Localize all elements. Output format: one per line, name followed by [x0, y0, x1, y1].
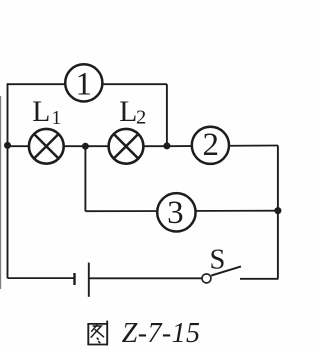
scan artifact left edge: [0, 96, 2, 289]
wire: bottom left to battery: [8, 277, 74, 279]
switch S lever: [211, 266, 241, 275]
wire: top branch horizontal: [8, 83, 168, 85]
svg-text:1: 1: [76, 67, 93, 103]
label L2: [119, 96, 146, 129]
caption text Z-7-15: [122, 318, 201, 349]
wire: branch 3 horizontal: [85, 210, 278, 213]
node D junction dot (right wire): [274, 207, 281, 214]
wire: battery to switch: [89, 277, 203, 279]
node B junction dot: [163, 142, 170, 149]
svg-text:S: S: [210, 244, 226, 275]
svg-text:L: L: [32, 96, 50, 128]
wire: left vertical: [7, 83, 9, 278]
meter 2: [192, 127, 229, 164]
svg-text:Z-7-15: Z-7-15: [122, 318, 201, 349]
wire: top branch vertical down to node B: [166, 84, 168, 146]
battery: negative plate (short): [73, 273, 75, 285]
svg-text:1: 1: [52, 108, 62, 129]
label L1: [32, 96, 61, 129]
meter 3: [157, 193, 195, 231]
wire: right vertical: [277, 146, 279, 279]
lamp L1: [29, 129, 64, 164]
svg-text:2: 2: [136, 107, 146, 129]
wire: switch to bottom right corner: [240, 278, 279, 280]
switch S pivot contact: [202, 274, 211, 283]
caption hanzi "tu" (figure) drawn as strokes: [88, 321, 108, 346]
svg-text:3: 3: [167, 195, 184, 231]
battery: positive plate (long): [88, 263, 90, 297]
node C junction dot (left wire): [4, 142, 11, 149]
wire: branch 3 vertical from node A: [84, 146, 86, 211]
lamp L2: [109, 129, 144, 164]
svg-text:2: 2: [203, 127, 220, 163]
label S: [210, 244, 226, 275]
svg-text:L: L: [119, 96, 137, 128]
node A junction dot: [82, 143, 89, 150]
meter 1: [65, 64, 102, 102]
wire: middle branch horizontal: [8, 145, 279, 148]
